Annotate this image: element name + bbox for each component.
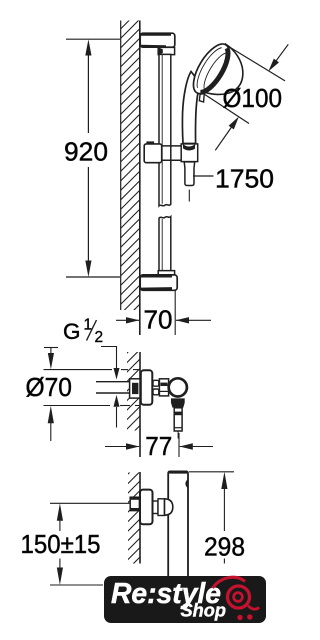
escutcheon (middle) (141, 370, 153, 405)
shower head face ring (186, 39, 236, 100)
dimension Ø70 (44, 348, 140, 442)
escutcheon (bottom) (140, 490, 153, 525)
hand shower handle (182, 72, 200, 144)
inlet nut (bottom) (130, 497, 139, 510)
dimension 298 (189, 472, 234, 564)
outlet stub (middle) (174, 408, 182, 439)
svg-text:298: 298 (204, 531, 245, 561)
wall hatch (middle) (110, 325, 155, 475)
inlet pipe (middle) (96, 382, 130, 393)
text 150±15 (21, 529, 101, 559)
rail (upper segment, wavy break bottom) (159, 54, 171, 206)
svg-text:G: G (63, 319, 81, 344)
hook notch on pipe (185, 479, 188, 489)
outlet pipe (bottom, long) (168, 471, 188, 578)
dimension 77 (105, 433, 213, 457)
shower head back (200, 44, 243, 94)
dimension 70 (top) (116, 291, 211, 336)
wall face line (middle, also left tick of 77) (139, 352, 141, 457)
inlet nut (middle) (130, 379, 140, 398)
svg-text:1750: 1750 (215, 164, 274, 194)
text 298 (204, 531, 245, 561)
logo text Re:style (111, 578, 221, 610)
logo text Shop (181, 601, 227, 621)
svg-text:70: 70 (144, 304, 173, 334)
text Ø70 (26, 372, 73, 402)
hose cone below holder (184, 162, 195, 202)
knob bulge (bottom) (165, 499, 173, 515)
svg-text:2: 2 (95, 329, 104, 346)
G1/2 leader (101, 347, 117, 369)
text G 1/2 (63, 317, 103, 347)
wall left border line (120, 21, 122, 311)
top bracket (140, 33, 175, 55)
rail (lower segment, wavy top) (159, 217, 171, 274)
svg-text:Ø70: Ø70 (26, 372, 73, 402)
wall hatch (bottom) (112, 448, 154, 595)
cartridge (bottom) (153, 499, 165, 516)
logo @ cart icon (213, 577, 260, 609)
svg-text:150±15: 150±15 (21, 529, 101, 559)
dimension 920 (66, 39, 120, 277)
spray lever (199, 90, 204, 102)
cartridge block (middle) (159, 379, 168, 396)
svg-text:Shop: Shop (181, 601, 227, 621)
dimension Ø100 (201, 44, 289, 150)
svg-text:Ø100: Ø100 (223, 83, 283, 113)
wall face line (also left tick of 70 dim) (139, 21, 141, 336)
gland tabs (middle) (153, 380, 159, 395)
wall face line (bottom) (139, 472, 141, 564)
logo plate (104, 576, 266, 623)
text 920 (64, 137, 108, 167)
bottom bracket (140, 271, 177, 291)
label 1750 (193, 175, 214, 177)
knob collar (171, 398, 185, 407)
wall hatch (top diagram) (100, 0, 160, 363)
text 70 (top) (144, 304, 173, 334)
G1/2 lower arrow (114, 395, 120, 428)
dimension 150±15 (50, 503, 130, 585)
text 77 (145, 431, 172, 461)
svg-text:920: 920 (64, 137, 108, 167)
svg-text:77: 77 (145, 431, 172, 461)
handle knob (middle) (169, 378, 187, 396)
holder slider on rail (144, 141, 198, 162)
text Ø100 (223, 83, 283, 113)
